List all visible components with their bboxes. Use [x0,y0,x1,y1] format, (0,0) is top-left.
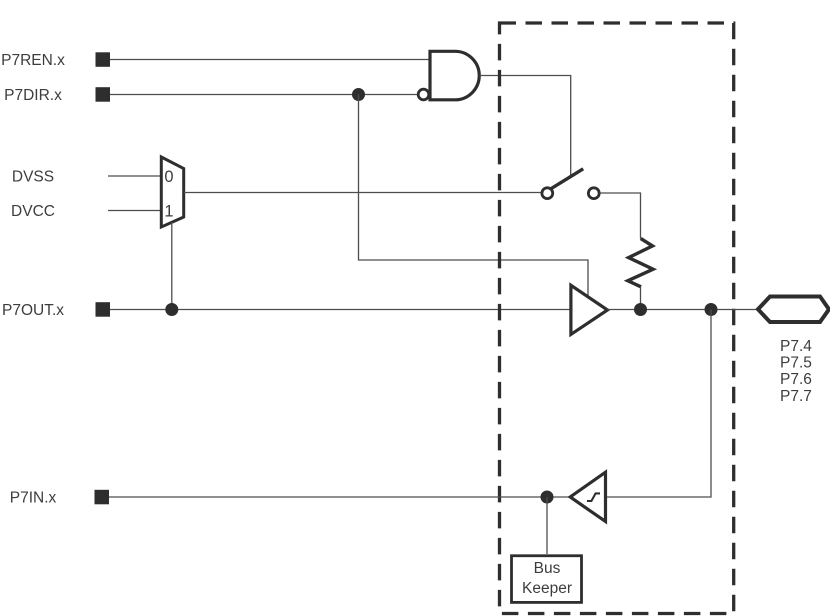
svg-text:P7.7: P7.7 [780,388,812,405]
svg-text:0: 0 [164,168,173,186]
svg-text:P7REN.x: P7REN.x [1,52,65,69]
wire DVSS to mux input 0 [108,175,161,177]
wire DVCC to mux input 1 [108,210,161,212]
wire driver output to pad [608,309,759,311]
switch lever [551,169,583,189]
mux DVSS/DVCC selector [161,157,183,227]
terminal square P7OUT.x [96,302,111,317]
resistor R (pullup/pulldown) [628,239,653,287]
wire P7REN.x to AND gate top input [110,59,430,61]
junction dot on P7DIR.x [352,88,365,101]
svg-text:P7OUT.x: P7OUT.x [2,302,64,319]
wire P7IN.x from input buffer [109,496,570,498]
wire switch to resistor [600,193,641,239]
svg-text:P7IN.x: P7IN.x [10,490,57,507]
svg-text:Keeper: Keeper [522,580,572,597]
junction dot bus keeper tap [541,491,554,504]
dashed pad-logic boundary [500,23,734,614]
AND gate input bubble [418,89,429,100]
svg-text:P7.6: P7.6 [780,371,812,388]
switch contact circle left [542,188,553,199]
svg-text:DVCC: DVCC [11,203,55,220]
wire P7DIR.x to AND gate inverted input [110,94,418,96]
svg-text:1: 1 [164,202,173,220]
bus keeper box [512,556,582,603]
junction dot pad/input path [705,303,718,316]
terminal square P7IN.x [95,490,110,505]
wire pad node to input buffer [606,310,712,498]
svg-text:P7DIR.x: P7DIR.x [4,87,62,104]
Schmitt hysteresis mark [587,493,600,501]
svg-text:P7.4: P7.4 [780,338,812,355]
input Schmitt trigger buffer [570,472,605,521]
svg-text:P7.5: P7.5 [780,355,812,372]
wire resistor to pad node [640,287,642,310]
junction dot resistor/pad [634,303,647,316]
wire bus keeper [546,497,548,554]
svg-text:DVSS: DVSS [12,169,54,186]
wire mux output to switch [184,192,541,194]
wire P7DIR.x to output driver enable [359,95,589,298]
wire P7OUT.x to output driver input [110,309,571,311]
pad hexagon P7.4-P7.7 [758,297,829,323]
junction dot P7OUT.x / mux select [165,303,178,316]
AND gate U1 (P7REN and inverted P7DIR) [430,51,479,100]
svg-text:Bus: Bus [534,560,561,577]
terminal square P7DIR.x [96,87,111,102]
terminal square P7REN.x [96,52,111,67]
wire mux select from P7OUT.x [171,222,173,310]
wire AND gate output to switch lever [479,76,570,177]
switch contact circle right [588,188,599,199]
output driver buffer [571,285,608,334]
